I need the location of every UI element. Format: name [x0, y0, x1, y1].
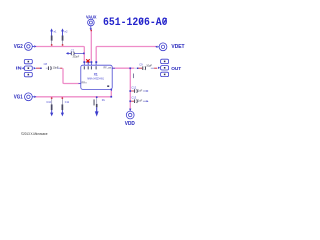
svg-text:C12: C12	[131, 86, 136, 90]
wire tap to C9	[134, 67, 137, 69]
IC X1 outline	[81, 65, 112, 89]
svg-text:RF_out: RF_out	[104, 67, 112, 70]
wire to RFin pin of X1	[62, 68, 79, 83]
svg-text:10pF: 10pF	[53, 66, 59, 70]
IC right pin RF_out	[112, 67, 115, 69]
svg-text:VG1: VG1	[14, 95, 23, 101]
wire IN port to C8	[36, 67, 40, 69]
via arrow up 2 on VG2 wire	[61, 28, 68, 45]
via arrow up 1 on VG2 wire	[50, 28, 57, 45]
VDET port	[158, 43, 167, 51]
wire C8 to corner	[60, 67, 62, 69]
IC bottom pin	[110, 89, 112, 91]
svg-text:10pF: 10pF	[146, 63, 152, 67]
svg-text:C11: C11	[65, 101, 70, 104]
wire VDD vertical	[129, 68, 131, 109]
svg-text:C8: C8	[44, 62, 48, 66]
wire C9 to OUT port	[154, 67, 157, 69]
wire VAUX vertical	[90, 30, 92, 63]
node C8 pin 1	[40, 68, 42, 70]
bypass capacitor VDD 1	[129, 86, 148, 93]
svg-text:OUT: OUT	[171, 66, 181, 72]
junction node RF out / VDD	[129, 67, 131, 69]
junction node VG1 / drain pin	[110, 96, 112, 98]
svg-text:Rx: Rx	[102, 98, 106, 102]
VDD port	[126, 110, 134, 119]
wire C8 lead left	[46, 67, 48, 69]
svg-text:C13: C13	[131, 96, 136, 100]
svg-text:MMA-043234-B1: MMA-043234-B1	[87, 76, 104, 80]
svg-text:e2: e2	[65, 30, 68, 34]
svg-text:e1: e1	[54, 30, 57, 34]
pin mark IC bottom	[111, 89, 113, 91]
series capacitor C on IN line	[44, 62, 59, 70]
svg-text:1uF: 1uF	[138, 99, 143, 103]
IC top pins	[84, 62, 96, 65]
svg-text:C10: C10	[46, 101, 51, 104]
svg-text:C9: C9	[139, 63, 143, 67]
vertical label by VDD line	[133, 74, 134, 79]
svg-text:VDD: VDD	[125, 121, 135, 127]
svg-text:IN: IN	[16, 66, 22, 71]
wire IC bottom pin to VG1	[110, 91, 112, 97]
shunt via down 2 on VG1 wire	[61, 97, 70, 116]
svg-text:100pF: 100pF	[72, 55, 79, 58]
shunt via down 1 on VG1 wire	[46, 97, 53, 116]
series capacitor on OUT line	[139, 63, 152, 70]
wire VG2 horizontal	[35, 47, 85, 63]
wire C9 lead right	[151, 67, 154, 69]
wire C8 lead right	[57, 67, 60, 69]
OUT port pads	[161, 59, 169, 76]
node C9 pin 1	[137, 68, 139, 70]
VG1 port	[25, 93, 35, 101]
wire C9 lead left	[138, 67, 142, 69]
svg-text:VDET: VDET	[171, 44, 185, 50]
wire VG1 horizontal	[35, 96, 112, 98]
shunt capacitor on gate line	[66, 49, 85, 58]
pin junction marks	[83, 61, 97, 63]
svg-text:651-1206-A0: 651-1206-A0	[103, 17, 168, 29]
wire VDET	[96, 47, 156, 63]
bypass capacitor VDD 2	[129, 96, 148, 103]
red X unconnected pin	[86, 59, 90, 62]
IC top pin labels	[84, 66, 97, 69]
wire RF_out to VDD tap	[113, 67, 135, 69]
svg-text:1uF: 1uF	[138, 88, 143, 92]
svg-text:©2013 X-Microwave: ©2013 X-Microwave	[21, 131, 48, 136]
shunt resistor to ground on VG1 wire	[94, 96, 106, 116]
VG2 port	[25, 43, 35, 51]
IC left pin RFin	[79, 83, 81, 85]
svg-text:RFin: RFin	[82, 82, 88, 85]
IN port pads	[24, 59, 32, 76]
svg-text:VG2: VG2	[14, 44, 23, 50]
svg-text:X1: X1	[94, 73, 98, 77]
VAUX port	[88, 19, 95, 28]
svg-text:VAUX: VAUX	[86, 14, 97, 20]
